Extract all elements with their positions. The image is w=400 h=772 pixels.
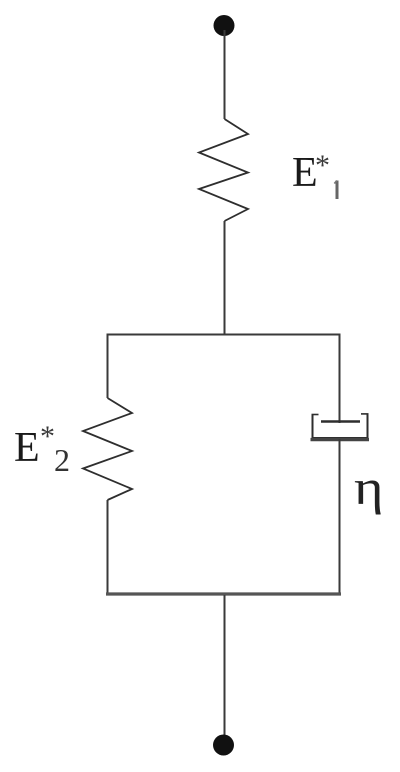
dashpot cup right top tick [361, 413, 369, 415]
bottom terminal node [213, 735, 234, 756]
label E*1 subscript 1 [336, 181, 339, 200]
top terminal node [214, 15, 235, 36]
resistor/spring E*2 [83, 398, 132, 500]
wire top bar of parallel block [107, 334, 341, 336]
wire left branch lower [107, 500, 109, 594]
label eta [354, 458, 384, 516]
wire right branch rod [339, 334, 341, 424]
label E*1 [292, 149, 318, 197]
dashpot cylinder cup [313, 414, 368, 438]
dashpot piston plate [321, 420, 360, 422]
dashpot cup left top tick [312, 414, 319, 416]
wire top terminal to spring E1 [224, 30, 226, 119]
label E*2 [14, 424, 40, 472]
wire bottom bar of parallel block [106, 592, 341, 595]
dashpot cup bottom thick [311, 438, 370, 441]
wire right branch lower [339, 439, 341, 594]
wire spring E1 to top bar [224, 221, 226, 335]
wire left branch upper [107, 334, 109, 399]
resistor/spring E*1 [199, 119, 248, 221]
wire bottom bar to bottom terminal [224, 595, 226, 740]
